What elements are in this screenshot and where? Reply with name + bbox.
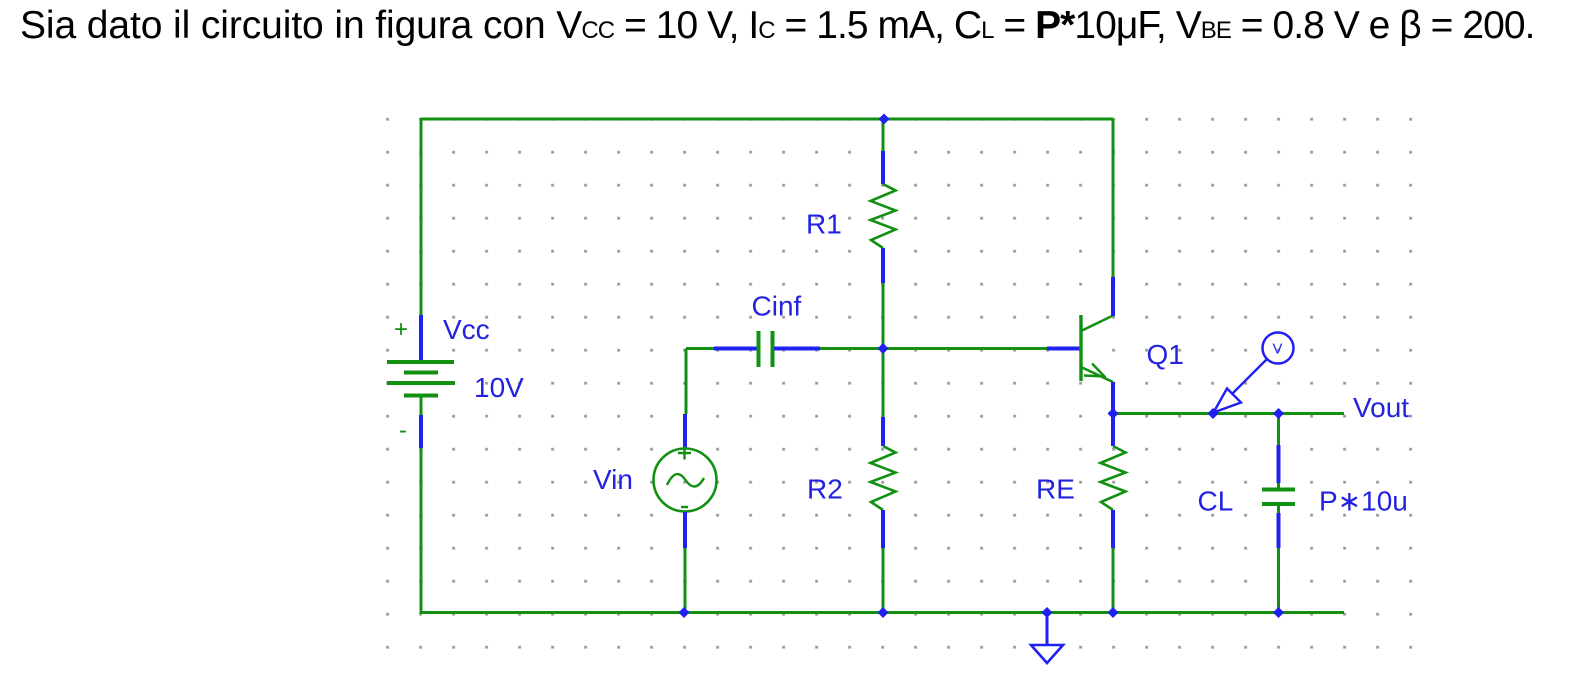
svg-text:Q1: Q1 bbox=[1147, 339, 1184, 370]
svg-text:Vin: Vin bbox=[593, 464, 633, 495]
wire base bbox=[883, 347, 1047, 350]
node Vin bottom bbox=[679, 607, 690, 618]
svg-text:R2: R2 bbox=[807, 474, 843, 505]
wire collector bbox=[1112, 119, 1115, 277]
node emitter bbox=[1108, 408, 1119, 419]
svg-text:P∗10u: P∗10u bbox=[1319, 486, 1408, 517]
capacitor CL bbox=[1262, 413, 1295, 612]
wire left rail upper bbox=[420, 118, 423, 315]
node probe bbox=[1208, 408, 1219, 419]
svg-text:Vcc: Vcc bbox=[443, 314, 490, 345]
source Vin bbox=[654, 414, 717, 612]
svg-text:RE: RE bbox=[1036, 474, 1075, 505]
wire emitter node to Vout bbox=[1113, 412, 1344, 415]
capacitor Cinf bbox=[686, 331, 883, 367]
svg-text:Cinf: Cinf bbox=[752, 291, 802, 322]
svg-text:10V: 10V bbox=[474, 372, 524, 403]
svg-text:R1: R1 bbox=[806, 209, 842, 240]
voltmeter probe V bbox=[1214, 333, 1294, 413]
svg-text:CL: CL bbox=[1198, 486, 1234, 517]
battery Vcc bbox=[387, 315, 455, 448]
resistor R2 bbox=[871, 348, 896, 612]
node CL top bbox=[1273, 408, 1284, 419]
svg-text:Vout: Vout bbox=[1353, 392, 1409, 423]
node top rail R1 bbox=[879, 114, 890, 125]
svg-text:+: + bbox=[394, 316, 408, 343]
resistor RE bbox=[1101, 413, 1126, 612]
node ground bbox=[1042, 607, 1053, 618]
wire Vin top bbox=[685, 349, 688, 415]
wire top rail bbox=[421, 118, 1113, 121]
transistor Q1 bbox=[1047, 277, 1113, 413]
node RE bottom bbox=[1108, 607, 1119, 618]
svg-text:V: V bbox=[1273, 341, 1283, 358]
wire left rail lower bbox=[421, 448, 684, 613]
node R2 bottom bbox=[878, 607, 889, 618]
ground bbox=[1031, 612, 1063, 663]
svg-text:-: - bbox=[399, 417, 407, 444]
node base bbox=[878, 343, 889, 354]
node CL bottom bbox=[1273, 607, 1284, 618]
resistor R1 bbox=[871, 119, 896, 348]
wire bottom rail bbox=[684, 611, 1344, 614]
